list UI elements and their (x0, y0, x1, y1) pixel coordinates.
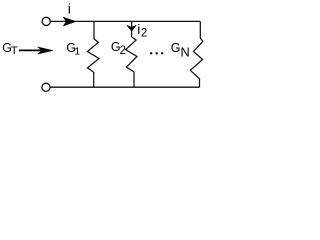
svg-text:N: N (181, 44, 190, 59)
svg-text:T: T (11, 45, 18, 57)
wire bottom rail (50, 86, 199, 88)
ellipsis dots between branches (150, 52, 152, 54)
wire branch 2 lead with current arrow i2 (131, 21, 133, 37)
svg-text:2: 2 (120, 45, 126, 57)
arrow GT (equivalent conductance pointer) (19, 49, 41, 51)
svg-text:G: G (171, 41, 181, 55)
svg-text:i: i (68, 1, 71, 17)
terminal bottom-left (open circle) (42, 83, 50, 91)
svg-text:2: 2 (141, 28, 147, 40)
wire top rail (51, 20, 201, 22)
svg-text:1: 1 (74, 45, 80, 57)
current arrowhead i on top rail (63, 17, 76, 26)
resistor G2 (126, 37, 137, 87)
terminal top-left (open circle) (42, 17, 50, 25)
resistor G1 (87, 21, 99, 87)
resistor GN (right branch, rail corner down through zigzag) (190, 21, 203, 87)
